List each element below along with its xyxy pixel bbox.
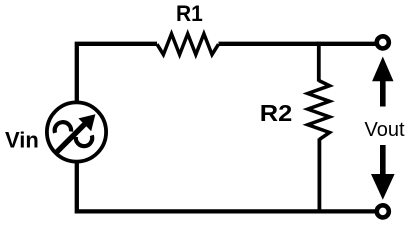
Vout arrow down <box>371 145 395 200</box>
source symbol right arc <box>76 135 92 146</box>
wire top-left segment (source to R1) <box>77 44 157 103</box>
svg-text:R1: R1 <box>176 1 203 26</box>
source Vin (variable source circle) <box>47 102 106 161</box>
terminal top-right <box>377 36 389 48</box>
wire top-right segment (R1 to output node) <box>219 42 378 46</box>
wire bottom segment <box>77 161 377 211</box>
source symbol left arc <box>55 122 71 133</box>
label R2 <box>260 100 293 126</box>
label Vin <box>5 128 39 153</box>
label Vout <box>365 119 405 141</box>
resistor R2 <box>308 81 330 140</box>
wire R2 bottom stub <box>317 139 321 214</box>
wire R2 top stub <box>317 42 321 82</box>
Vout arrow up <box>372 57 393 107</box>
label R1 <box>176 1 203 26</box>
svg-text:Vout: Vout <box>365 119 405 141</box>
source symbol arrow <box>56 114 95 152</box>
terminal bottom-right <box>377 205 389 217</box>
svg-text:Vin: Vin <box>5 128 39 153</box>
svg-text:R2: R2 <box>260 100 293 126</box>
resistor R1 <box>157 34 219 55</box>
